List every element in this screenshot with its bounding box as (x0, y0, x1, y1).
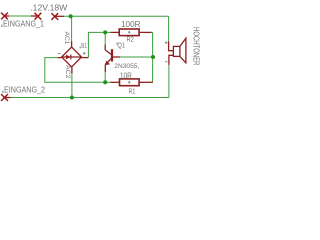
svg-text:HOCHTÖNER: HOCHTÖNER (192, 27, 201, 66)
svg-text:2N3055,: 2N3055, (114, 63, 139, 70)
svg-text:R1: R1 (129, 87, 136, 96)
svg-text:EINGANG_1: EINGANG_1 (3, 18, 44, 28)
svg-text:Q1: Q1 (117, 40, 125, 49)
svg-text:10R: 10R (120, 71, 132, 80)
svg-text:.12V.18W: .12V.18W (30, 3, 67, 12)
svg-text:EINGANG_2: EINGANG_2 (4, 84, 45, 94)
svg-text:AC1: AC1 (63, 32, 69, 46)
svg-text:B1: B1 (81, 41, 87, 50)
svg-text:R2: R2 (127, 35, 134, 44)
svg-text:AC2: AC2 (64, 65, 70, 79)
svg-text:100R: 100R (121, 20, 141, 29)
